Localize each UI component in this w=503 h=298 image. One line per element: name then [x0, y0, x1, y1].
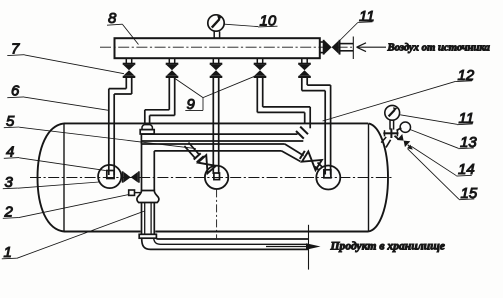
- valve on branch 3b: [198, 155, 216, 173]
- pipe from valve 9e into circle 3c: [302, 77, 331, 175]
- pressure gauge 11: [385, 105, 400, 120]
- valve 9a: [123, 58, 136, 77]
- arm to valve 14: [395, 136, 399, 140]
- svg-text:15: 15: [461, 185, 478, 202]
- pipe from valve 9b down to tank nozzle: [145, 77, 175, 125]
- tank inlet nozzle flange: [140, 130, 154, 134]
- svg-text:12: 12: [458, 67, 475, 84]
- valve 9e: [298, 58, 311, 77]
- hose body 1: [142, 203, 155, 235]
- valve 9d: [254, 58, 267, 77]
- manifold centerline: [100, 46, 352, 48]
- nozzle insert 4a: [107, 171, 114, 179]
- boundary tick bottom: [308, 225, 310, 270]
- product arrow: [266, 243, 321, 250]
- pipe from valve 9d to joint: [257, 77, 310, 128]
- valve 11 air inlet: [320, 40, 354, 55]
- svg-text:4: 4: [6, 143, 14, 160]
- svg-text:2: 2: [4, 203, 14, 220]
- tank vessel: [38, 123, 389, 231]
- upper in-tank header pipe: [141, 134, 303, 144]
- svg-text:3: 3: [5, 174, 14, 191]
- label 11 right: [400, 115, 472, 125]
- pipe from valve 9c into circle 3b: [213, 77, 218, 174]
- label 3: [3, 182, 99, 189]
- label 11 top: [339, 22, 372, 41]
- flanges on diagonal 3c: [300, 151, 308, 161]
- valve 14: [397, 134, 410, 147]
- label 5: [4, 127, 196, 149]
- svg-text:11: 11: [459, 110, 475, 127]
- pressure gauge 10: [208, 15, 224, 38]
- label 8: [107, 24, 139, 44]
- svg-text:Продукт в хранилище: Продукт в хранилище: [330, 240, 445, 253]
- sampling fitting 2: [129, 190, 142, 195]
- svg-text:1: 1: [4, 244, 12, 261]
- label 7: [7, 55, 124, 74]
- svg-text:13: 13: [460, 134, 477, 151]
- pipe from valve 9a to nozzle circle 3a: [109, 77, 132, 175]
- valve on diagonal 3c: [302, 151, 322, 170]
- svg-text:6: 6: [11, 83, 20, 100]
- nozzle insert 4b: [214, 173, 220, 180]
- lower in-tank header pipe: [142, 144, 285, 151]
- label 6: [7, 97, 109, 111]
- label 13: [410, 130, 473, 149]
- manifold 8: [115, 38, 320, 58]
- diagonal pipe to circle 3c: [282, 144, 304, 162]
- svg-text:7: 7: [11, 41, 20, 58]
- hose bonnet 1: [137, 191, 159, 203]
- hose bottom flange: [139, 234, 156, 238]
- svg-text:9: 9: [187, 96, 196, 113]
- valve 9b: [166, 58, 179, 77]
- drain valve beside circle 3a: [123, 171, 139, 182]
- label 1: [2, 211, 145, 259]
- svg-text:8: 8: [108, 10, 117, 27]
- label 10: [225, 24, 278, 27]
- tank inlet nozzle collar: [142, 125, 152, 130]
- arm to valve circle 13: [397, 128, 402, 131]
- gauge stem: [390, 120, 394, 129]
- bottom discharge pipe: [142, 238, 309, 249]
- svg-text:10: 10: [260, 12, 277, 29]
- gauge tee cross: [383, 128, 398, 138]
- boundary tick: [352, 37, 354, 60]
- label 12: [323, 81, 472, 121]
- flanges on branch 3b: [194, 153, 204, 162]
- circle 13: [400, 122, 410, 132]
- nozzle circle 3c: [316, 166, 340, 190]
- valve 9c: [210, 58, 223, 77]
- svg-text:Воздух от источника: Воздух от источника: [387, 42, 491, 54]
- nozzle circle 3a: [98, 165, 121, 188]
- label 4: [4, 158, 106, 171]
- nozzle circle 3b: [205, 166, 228, 189]
- svg-text:5: 5: [6, 113, 15, 130]
- svg-text:14: 14: [458, 161, 475, 178]
- vent arrow 15: [407, 145, 413, 150]
- label 9: [173, 76, 256, 111]
- diagonal flange joint: [296, 127, 308, 139]
- right gauge mount legs: [381, 137, 390, 147]
- svg-text:11: 11: [359, 8, 375, 25]
- drain column walls: [142, 144, 155, 191]
- nozzle insert 4c: [324, 170, 331, 178]
- branch diagonal to circle 3b: [184, 143, 199, 159]
- label 14: [411, 146, 471, 176]
- label 15: [408, 149, 475, 200]
- centerline below circle 3b: [216, 189, 218, 238]
- label 2: [3, 195, 129, 219]
- air inlet arrow: [357, 43, 386, 52]
- tank centerline: [30, 177, 394, 179]
